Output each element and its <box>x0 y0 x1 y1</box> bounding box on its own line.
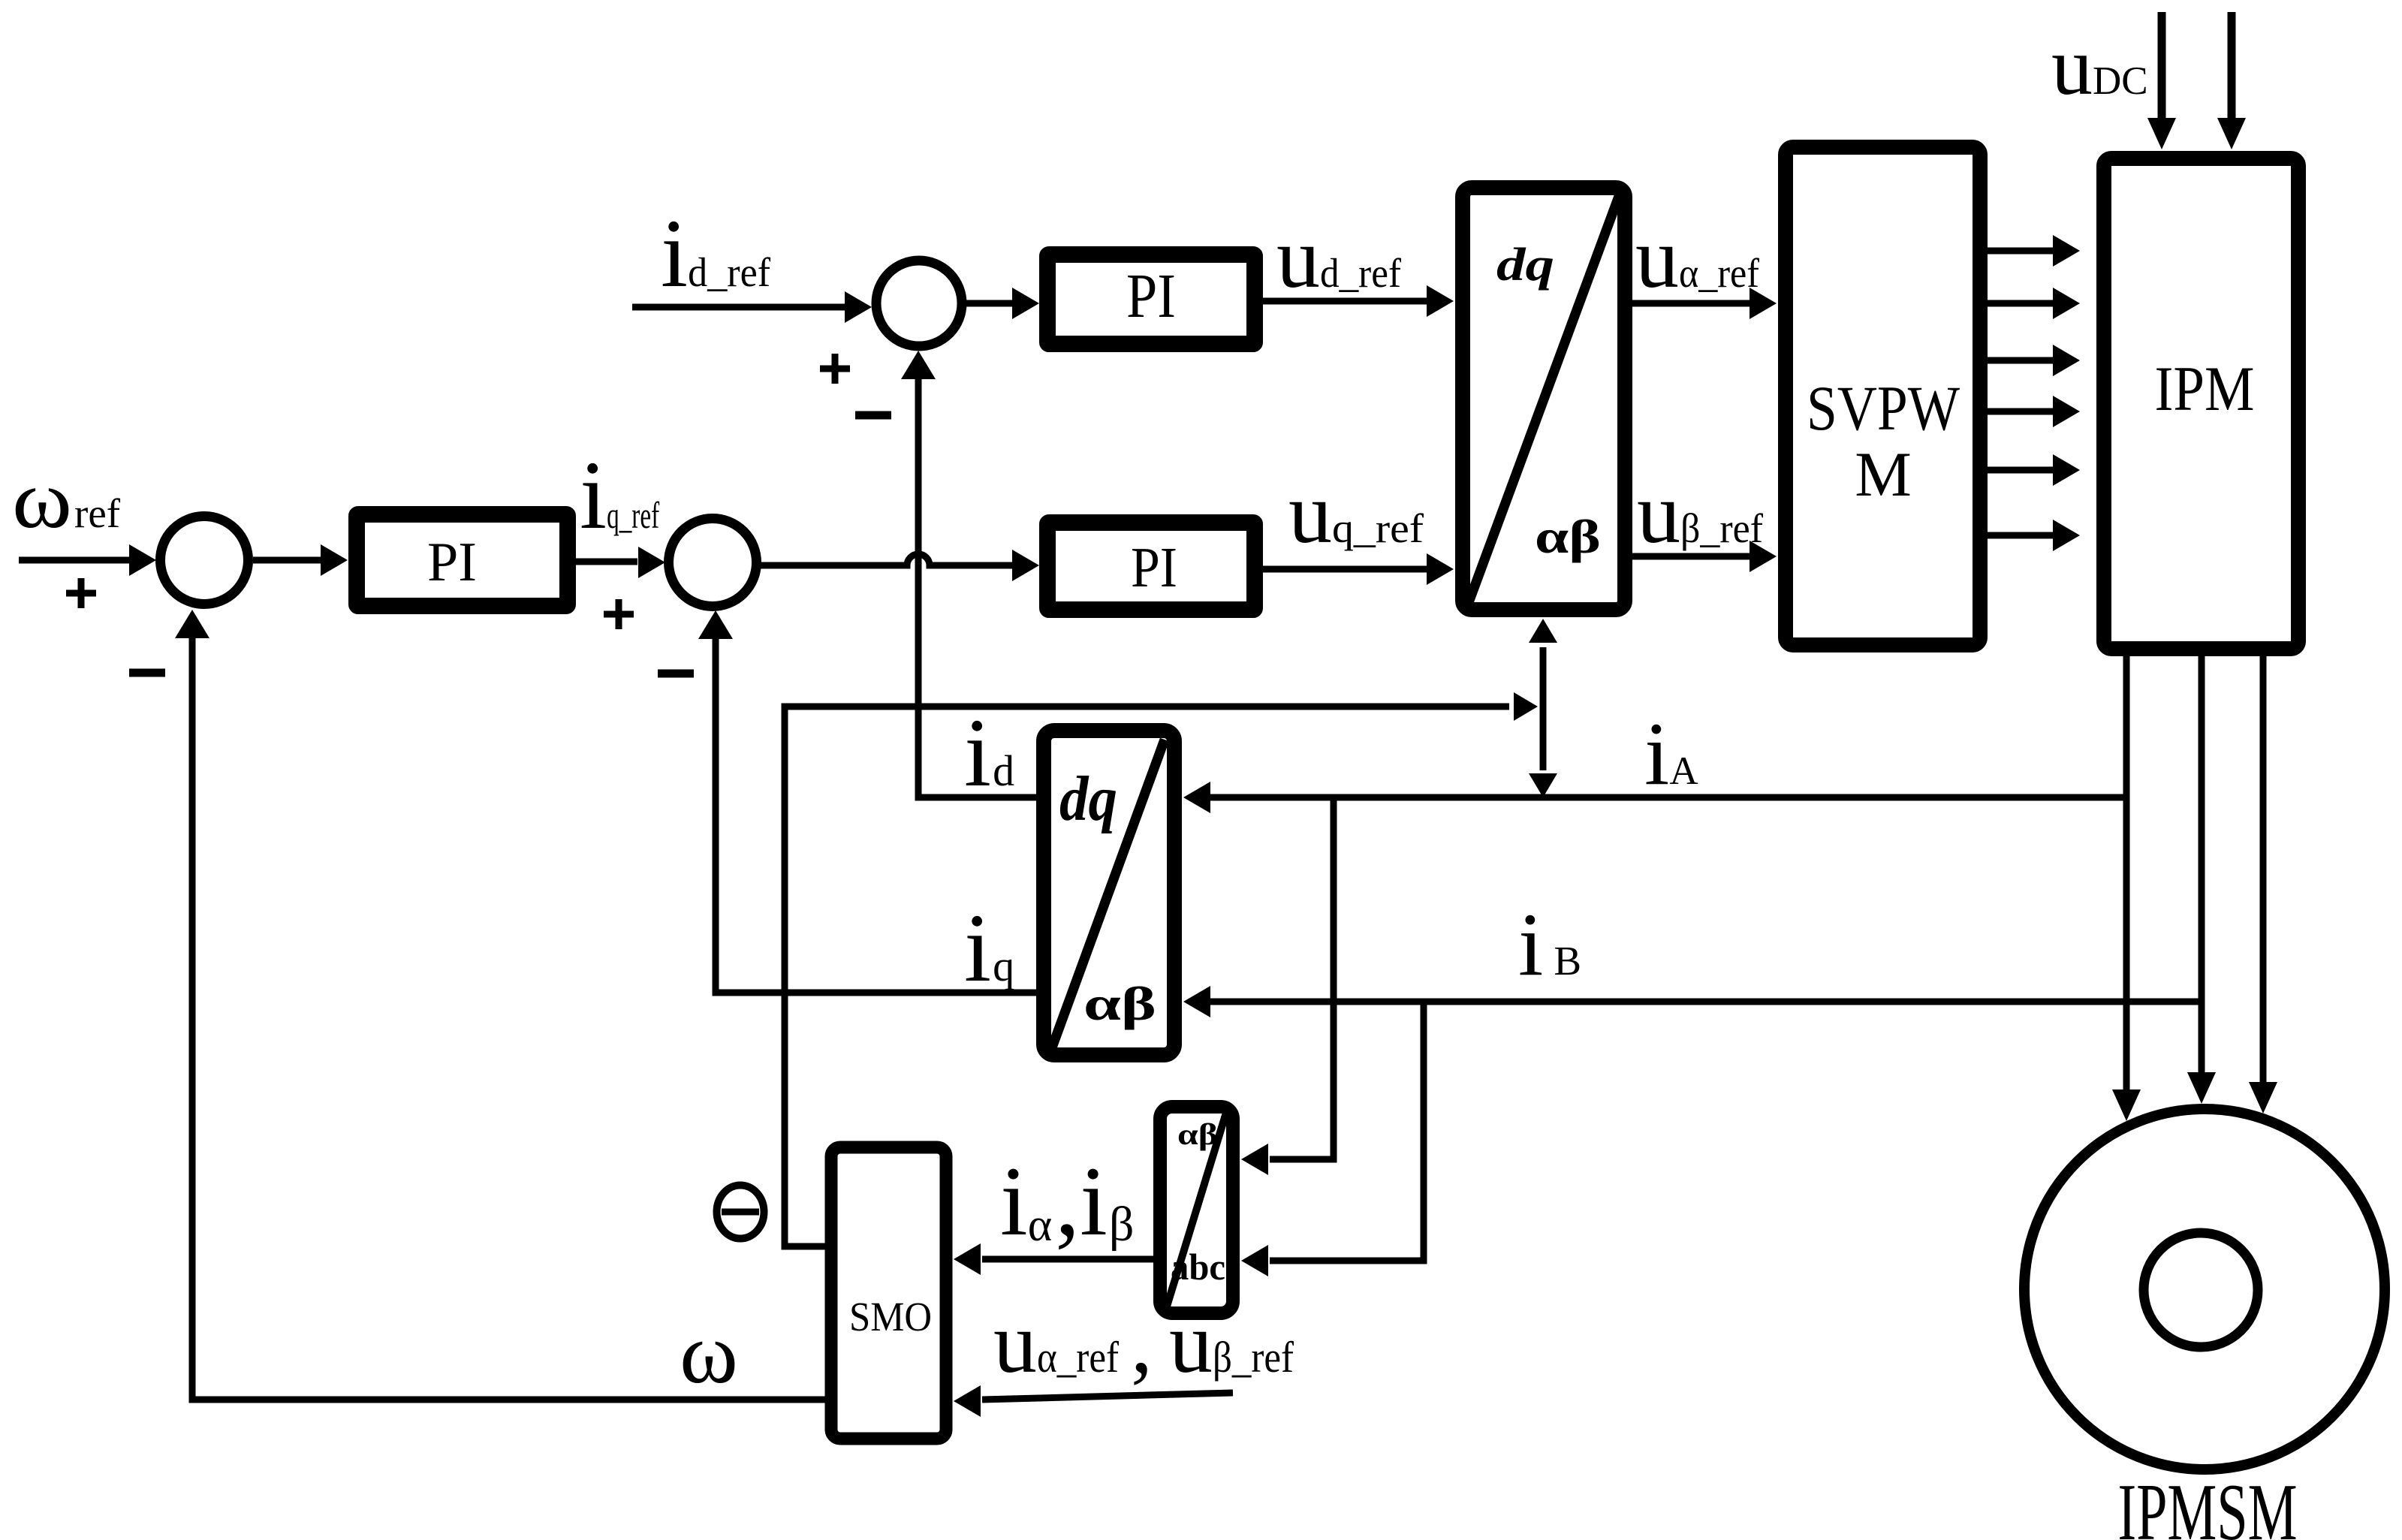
block SVPWM <box>1786 147 1980 645</box>
wire S2 to PI3 with hop <box>761 554 1014 565</box>
svg-text:PI: PI <box>1126 261 1176 331</box>
svg-text:SMO: SMO <box>849 1294 932 1340</box>
wire U1 to SVPWM ub_ref <box>1632 553 1750 560</box>
svg-text:dq: dq <box>1496 240 1554 291</box>
summing junction S1 <box>161 517 249 604</box>
wire U3 to SMO ia ib <box>982 1256 1153 1263</box>
svg-text:PI: PI <box>1131 536 1177 599</box>
label theta <box>717 1186 764 1239</box>
svg-text:abc: abc <box>1171 1246 1225 1288</box>
wire iA feedback <box>1210 794 2126 801</box>
summing junction S3 <box>876 261 962 346</box>
wire U1 to SVPWM ua_ref <box>1632 300 1750 307</box>
block PI3 (q-axis PI) <box>1047 523 1255 610</box>
wires SVPWM to IPM 6 gate arrows <box>1988 251 2053 535</box>
block U3 alphabeta/abc transform <box>1160 1107 1233 1313</box>
wire theta SMO to U1 <box>785 707 1509 1246</box>
wire theta vertical into U1 bottom <box>1540 647 1547 707</box>
wire theta vertical down to iA line <box>1540 707 1547 770</box>
sign plus S2 <box>604 599 634 629</box>
block IPM inverter <box>2104 158 2298 649</box>
sign minus S3 <box>855 411 891 420</box>
wire S1 to PI1 <box>253 557 321 564</box>
wire iB tap to U3 <box>1270 1002 1424 1261</box>
block PI1 (speed PI) <box>357 514 568 606</box>
wire PI2 to U1 ud_ref <box>1263 298 1427 305</box>
block PI2 (d-axis PI) <box>1047 255 1255 344</box>
sign minus S2 <box>658 670 694 678</box>
sign plus S1 <box>66 578 96 608</box>
wire omega SMO to S1 <box>192 631 825 1400</box>
svg-text:αβ: αβ <box>1177 1117 1218 1151</box>
block SMO observer <box>831 1147 946 1439</box>
svg-text:ω: ω <box>680 1306 738 1401</box>
motor IPMSM inner <box>2144 1233 2258 1347</box>
wire iA tap to U3 <box>1270 797 1334 1159</box>
wire iB feedback <box>1210 999 2202 1005</box>
wire ua_ref ub_ref to SMO <box>982 1393 1233 1400</box>
wire iq output U2 to S2 <box>716 629 1044 993</box>
svg-text:IPMSM: IPMSM <box>2118 1468 2298 1540</box>
svg-text:IPM: IPM <box>2155 354 2255 424</box>
motor IPMSM outer <box>2024 1109 2385 1469</box>
summing junction S2 <box>669 519 757 607</box>
svg-text:ref: ref <box>74 490 121 536</box>
svg-text:PI: PI <box>427 532 477 593</box>
sign minus S1 <box>129 669 165 677</box>
svg-text:αβ: αβ <box>1083 977 1156 1030</box>
wire S3 to PI2 <box>962 300 1014 307</box>
block U2 dq/alphabeta feedback transform <box>1044 731 1174 1055</box>
svg-text:M: M <box>1855 439 1912 510</box>
wires IPM to motor 3 phase lines <box>2123 656 2130 1092</box>
svg-text:SVPW: SVPW <box>1807 373 1960 444</box>
svg-text:αβ: αβ <box>1535 510 1601 563</box>
wire PI1 to S2 <box>568 559 637 565</box>
svg-text:dq: dq <box>1059 764 1117 834</box>
wire w_ref input <box>19 557 129 564</box>
sign plus S3 <box>820 354 850 384</box>
wire id output U2 to S3 <box>918 369 1044 797</box>
wire PI3 to U1 uq_ref <box>1263 566 1427 573</box>
svg-text:ω: ω <box>12 454 72 545</box>
wire id_ref input <box>632 304 845 311</box>
wire u_DC input arrows <box>2158 12 2166 122</box>
block U1 dq/alphabeta inverse transform <box>1463 188 1625 610</box>
